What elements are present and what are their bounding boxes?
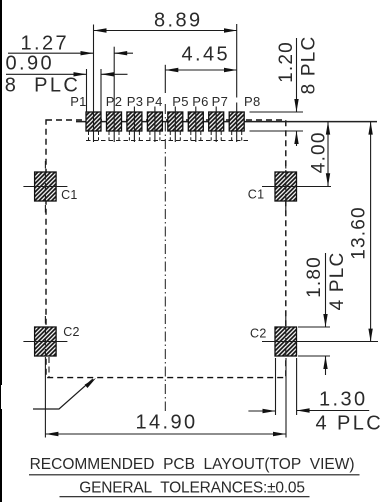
svg-text:4 PLC: 4 PLC bbox=[316, 413, 382, 435]
svg-text:8 PLC: 8 PLC bbox=[5, 75, 81, 97]
svg-text:P2: P2 bbox=[106, 94, 123, 109]
pad C2 right bbox=[275, 327, 297, 356]
pad C1 left bbox=[35, 172, 57, 201]
svg-text:RECOMMENDED PCB LAYOUT(TOP: RECOMMENDED PCB LAYOUT(TOP VIEW) bbox=[30, 456, 355, 473]
body vertical centerline bbox=[164, 104, 166, 411]
dimension 1.30 / 4 PLC bbox=[248, 410, 369, 413]
pad P3 bbox=[127, 112, 142, 131]
pad C2 left bbox=[35, 327, 57, 356]
svg-text:8.89: 8.89 bbox=[154, 10, 203, 32]
extension lines: bottom bbox=[45, 357, 296, 438]
svg-text:GENERAL TOLERANCES:±0.05: GENERAL TOLERANCES:±0.05 bbox=[79, 480, 304, 497]
svg-text:P8: P8 bbox=[244, 94, 261, 109]
svg-text:P6: P6 bbox=[192, 94, 209, 109]
sub-pad dashed housing line bbox=[86, 140, 251, 142]
svg-text:4.45: 4.45 bbox=[182, 44, 231, 66]
svg-text:1.30: 1.30 bbox=[319, 389, 368, 411]
svg-text:C1: C1 bbox=[248, 188, 265, 202]
svg-text:P3: P3 bbox=[127, 94, 144, 109]
svg-text:1.20: 1.20 bbox=[276, 41, 297, 83]
svg-text:0.90: 0.90 bbox=[6, 53, 55, 75]
pad P7 bbox=[209, 112, 224, 131]
svg-text:8 PLC: 8 PLC bbox=[299, 36, 320, 95]
dimension 0.90 / 8 PLC bbox=[6, 73, 128, 75]
pad P4 bbox=[147, 112, 162, 131]
scan border left edge bbox=[0, 0, 2, 502]
dimension 14.90 bbox=[45, 433, 286, 435]
svg-text:P1: P1 bbox=[70, 94, 87, 109]
dimension 1.80 / 4 PLC (vertical) bbox=[325, 253, 327, 375]
capacitor pads C1 C2 bbox=[35, 172, 297, 356]
dimension 13.60 (vertical) bbox=[370, 122, 372, 342]
extension lines: top left dims bbox=[87, 65, 166, 112]
svg-text:C2: C2 bbox=[63, 325, 80, 339]
dimension 1.27 bbox=[8, 52, 133, 54]
pad P8 bbox=[229, 112, 244, 131]
pad P1 bbox=[86, 112, 101, 131]
pads P1..P8 bbox=[86, 112, 244, 131]
sub-pad dashed pin outlines bbox=[89, 132, 242, 141]
extension lines: right of pad row bbox=[250, 112, 331, 356]
leader arrow to body outline bbox=[33, 379, 93, 409]
dimension 1.20 / 8 PLC (vertical) bbox=[296, 38, 298, 146]
pad row reference line (through pad centers) bbox=[76, 121, 377, 123]
svg-text:P4: P4 bbox=[146, 94, 163, 109]
svg-text:C2: C2 bbox=[250, 327, 267, 341]
pad P5 bbox=[168, 112, 183, 131]
svg-text:P7: P7 bbox=[212, 94, 229, 109]
svg-text:P5: P5 bbox=[172, 94, 189, 109]
svg-text:14.90: 14.90 bbox=[136, 412, 198, 434]
C pad crosshairs bbox=[23, 161, 378, 377]
svg-text:1.27: 1.27 bbox=[21, 33, 70, 55]
pad center lines bbox=[94, 24, 237, 142]
svg-text:C1: C1 bbox=[61, 188, 78, 202]
pad C1 right bbox=[275, 172, 297, 201]
dimension 4.45 bbox=[165, 69, 237, 71]
svg-text:13.60: 13.60 bbox=[349, 206, 370, 260]
connector body outline (dashed) bbox=[46, 120, 286, 378]
svg-text:4 PLC: 4 PLC bbox=[327, 252, 348, 311]
pad P2 bbox=[107, 112, 122, 131]
dimension 4.00 (vertical) bbox=[327, 122, 329, 187]
pad P6 bbox=[188, 112, 203, 131]
svg-text:1.80: 1.80 bbox=[304, 256, 325, 298]
svg-text:4.00: 4.00 bbox=[309, 131, 330, 173]
dimension 8.89 bbox=[94, 30, 238, 32]
